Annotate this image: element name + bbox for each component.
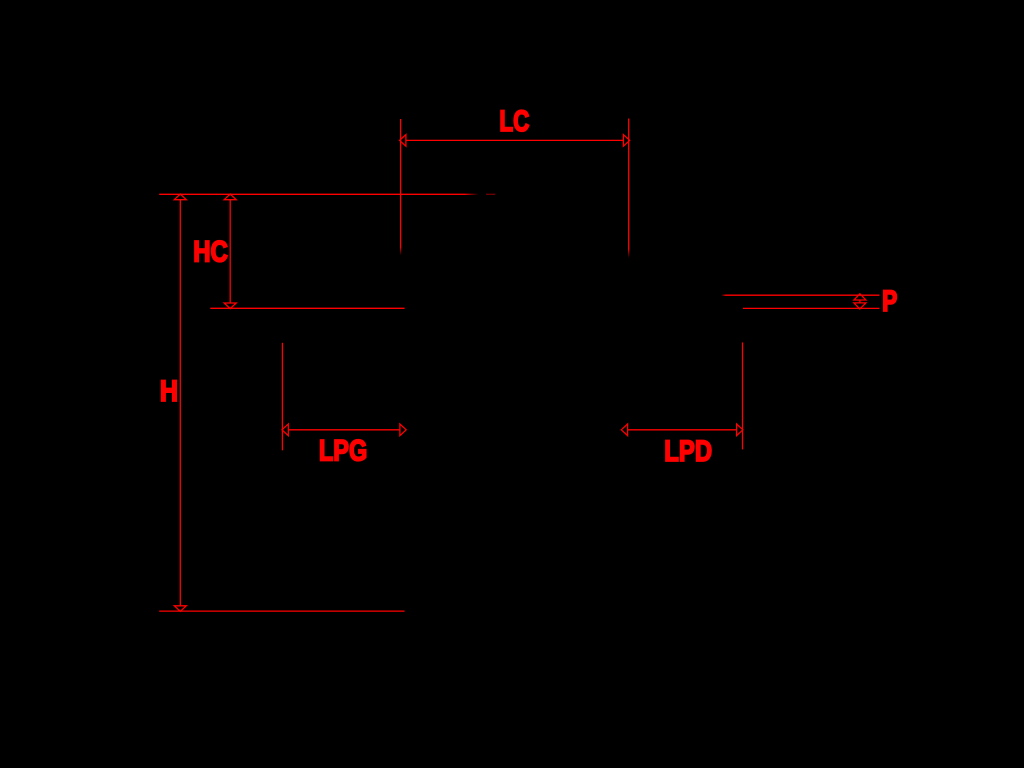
node HC top arrow [224,194,236,200]
svg-text:LPD: LPD [664,435,712,468]
node LPG left arrow [282,424,288,436]
svg-text:P: P [882,285,897,318]
wire LPG dimension line [288,429,400,431]
wire LC dimension line [406,139,624,141]
wire H dimension vertical line [179,200,181,606]
wire mid horizontal line y=308 left segment [210,307,404,309]
node LPD right arrow [737,424,743,436]
node H bottom arrow [174,606,186,612]
svg-text:HC: HC [193,236,228,269]
node LPG right arrow [400,424,406,436]
node H top arrow [174,194,186,200]
wire top line faint dash [486,193,495,195]
wire P bottom line [743,307,879,309]
node LC left arrow [400,135,406,147]
wire LPD right extension line [742,342,744,449]
wire HC dimension vertical line [229,200,231,303]
node HC bottom arrow [224,303,236,309]
wire LPG left extension line [281,343,283,451]
wire LC left extension line [400,119,402,247]
wire LC right extension line [628,119,630,250]
node P down arrow [854,303,866,309]
wire P arrow connector [859,300,861,303]
node LC right arrow [623,135,629,147]
node P up arrow [854,294,866,300]
svg-text:LPG: LPG [319,435,367,468]
wire P top line [726,294,880,296]
svg-text:LC: LC [499,105,529,138]
node LPD left arrow [621,424,627,436]
wire top horizontal extension line y=194 [159,193,465,195]
wire LPD dimension line [628,429,737,431]
wire bottom horizontal line y=611 [159,610,404,612]
svg-text:H: H [160,375,178,408]
wire top line fading tail [465,194,479,195]
